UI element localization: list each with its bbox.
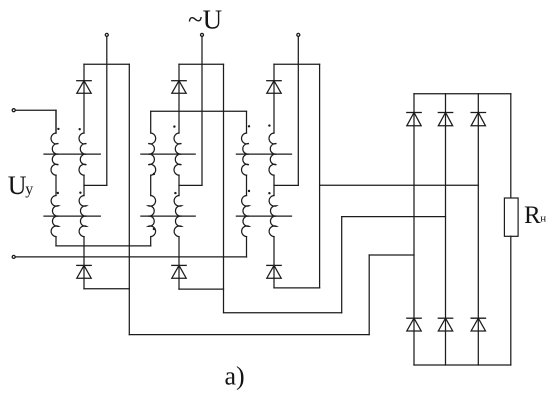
svg-text:н: н	[540, 213, 546, 225]
svg-text:U: U	[8, 171, 27, 200]
svg-text:~U: ~U	[188, 5, 222, 35]
svg-text:у: у	[25, 181, 33, 198]
svg-text:R: R	[524, 202, 541, 229]
svg-text:а): а)	[225, 362, 245, 391]
